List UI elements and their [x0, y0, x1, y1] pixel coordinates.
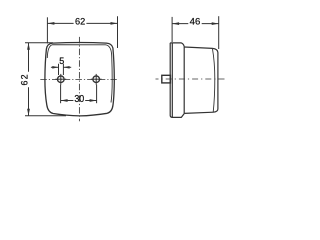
side view: mounting stud: [162, 75, 171, 83]
side view: base inner line: [171, 43, 173, 117]
side view: rubber base back edge: [170, 43, 184, 118]
dimension 46: arrows: [172, 22, 179, 25]
dimension 62 top: arrows: [47, 22, 54, 25]
dimension 30: dimension line: [61, 100, 74, 102]
side view: base top edge and chamfer: [170, 43, 184, 47]
side view: lens bottom edge: [184, 112, 213, 113]
vertical centerline of front view: [78, 37, 80, 121]
dimension 30: arrows: [61, 99, 68, 102]
dimension 5: tails and arrows pointing inward: [51, 66, 59, 68]
side view: housing front vertical line: [183, 47, 185, 113]
svg-text:30: 30: [74, 93, 84, 105]
dimension 62 top: dimension line: [47, 22, 73, 24]
front view outer outline: [45, 43, 114, 116]
side view horizontal centerline: [156, 78, 228, 80]
horizontal centerline of front view: [40, 79, 117, 81]
svg-text:62: 62: [19, 73, 29, 85]
svg-text:5: 5: [59, 56, 64, 66]
svg-text:46: 46: [190, 17, 201, 28]
side view: lens bulge inner line: [212, 48, 214, 112]
dimension 5: extension lines: [58, 64, 60, 75]
svg-text:62: 62: [75, 17, 85, 27]
dimension 62 left: dimension line: [28, 43, 30, 72]
left mounting hole: [55, 74, 66, 85]
front view inner lens line (top corners): [47, 45, 112, 103]
dimension 62 left: arrows: [27, 43, 30, 50]
dimension 62 left: extension lines: [25, 42, 53, 44]
dimension 30: extension lines: [60, 85, 62, 104]
side view: lens top edge: [184, 47, 212, 48]
dimension 46: extension lines: [171, 17, 173, 42]
right mounting hole: [91, 74, 102, 85]
dimension 62 top: extension lines: [46, 17, 48, 43]
side view: lens front face: [212, 48, 218, 112]
dimension 46: dimension line: [172, 23, 188, 25]
